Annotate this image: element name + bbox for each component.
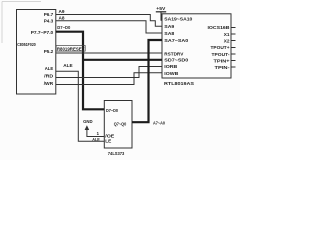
svg-text:RSTDRV: RSTDRV: [164, 51, 184, 56]
wire A8 from P4.3 to SA8: [56, 21, 162, 33]
svg-text:74LS373: 74LS373: [108, 151, 125, 157]
svg-text:IOWB: IOWB: [164, 71, 179, 76]
svg-text:TPIN+: TPIN+: [214, 58, 230, 63]
wire R8019RESET from P5.2 to RSTDRV: [56, 52, 162, 54]
wire GND to /OE: [87, 130, 104, 137]
svg-text:RTL8019AS: RTL8019AS: [164, 81, 195, 87]
svg-text:R8019RESET: R8019RESET: [57, 46, 85, 51]
U2 right pin stub TPOUT+: [231, 47, 236, 49]
U2 right pin stub TPIN-: [231, 66, 236, 68]
svg-text:GND: GND: [83, 119, 93, 124]
faint scan artifact line left: [1, 2, 3, 44]
svg-text:SA19~SA10: SA19~SA10: [164, 16, 192, 21]
svg-text:/RD: /RD: [44, 73, 53, 79]
wire ALE from ALE pin down to LE: [56, 71, 105, 141]
svg-text:P4.3: P4.3: [44, 18, 54, 24]
svg-text:D7~D0: D7~D0: [106, 108, 118, 113]
wire /RD to IORB: [56, 67, 162, 78]
svg-text:C8051F020: C8051F020: [17, 42, 36, 48]
svg-text:P5.2: P5.2: [44, 49, 54, 55]
svg-text:ALE: ALE: [92, 137, 100, 142]
U2 right pin stub X2: [231, 40, 236, 42]
svg-text:LE: LE: [105, 139, 111, 144]
IC U3 74LS373 box: [104, 101, 132, 149]
IC U1 C8051F020 box: [17, 10, 56, 95]
U2 right pin stub IOCS16B: [231, 27, 236, 29]
IC U2 RTL8019AS box: [162, 14, 231, 78]
svg-text:SA8: SA8: [164, 31, 174, 36]
svg-text:A8: A8: [59, 15, 65, 20]
svg-text:P7.7~P7.0: P7.7~P7.0: [31, 30, 54, 36]
svg-text:SD7~SD0: SD7~SD0: [164, 58, 188, 63]
svg-text:IORB: IORB: [164, 64, 178, 69]
faint scan artifact line top: [2, 1, 41, 3]
svg-text:ALE: ALE: [45, 66, 54, 72]
port box R8019RESET: [56, 46, 85, 52]
svg-text:TPIN-: TPIN-: [215, 65, 231, 70]
svg-text:ALE: ALE: [63, 63, 72, 68]
svg-text:A7~A0: A7~A0: [153, 120, 165, 125]
svg-text:D7~D0: D7~D0: [57, 25, 70, 30]
svg-text:X2: X2: [224, 38, 230, 43]
U2 right pin stub X1: [231, 33, 236, 35]
svg-text:X1: X1: [224, 32, 230, 37]
svg-text:SA9: SA9: [164, 24, 174, 29]
wire +5V stem: [161, 12, 162, 20]
U2 right pin stub TPOUT-: [231, 53, 236, 55]
svg-text:IOCS16B: IOCS16B: [208, 25, 231, 30]
svg-text:/WR: /WR: [44, 81, 54, 87]
svg-text:A9: A9: [59, 9, 65, 14]
svg-text:TPOUT-: TPOUT-: [212, 52, 230, 57]
bus A7~A0 from Q7~Q0 to SA7~SA0: [132, 40, 162, 122]
svg-text:+5V: +5V: [156, 6, 166, 11]
wire /WR to IOWB: [56, 73, 162, 85]
wire A9 from P6.7 to SA9: [56, 15, 162, 27]
svg-text:SA7~SA0: SA7~SA0: [164, 38, 188, 43]
bus branch SD7~SD0: [82, 59, 162, 61]
bus D7~D0 from P7.7~P7.0 to latch and SD7~SD0: [56, 32, 105, 110]
svg-text:Q7~Q0: Q7~Q0: [114, 121, 127, 126]
svg-text:P6.7: P6.7: [44, 12, 54, 18]
U2 right pin stub TPIN+: [231, 60, 236, 62]
svg-text:TPOUT+: TPOUT+: [211, 45, 230, 50]
